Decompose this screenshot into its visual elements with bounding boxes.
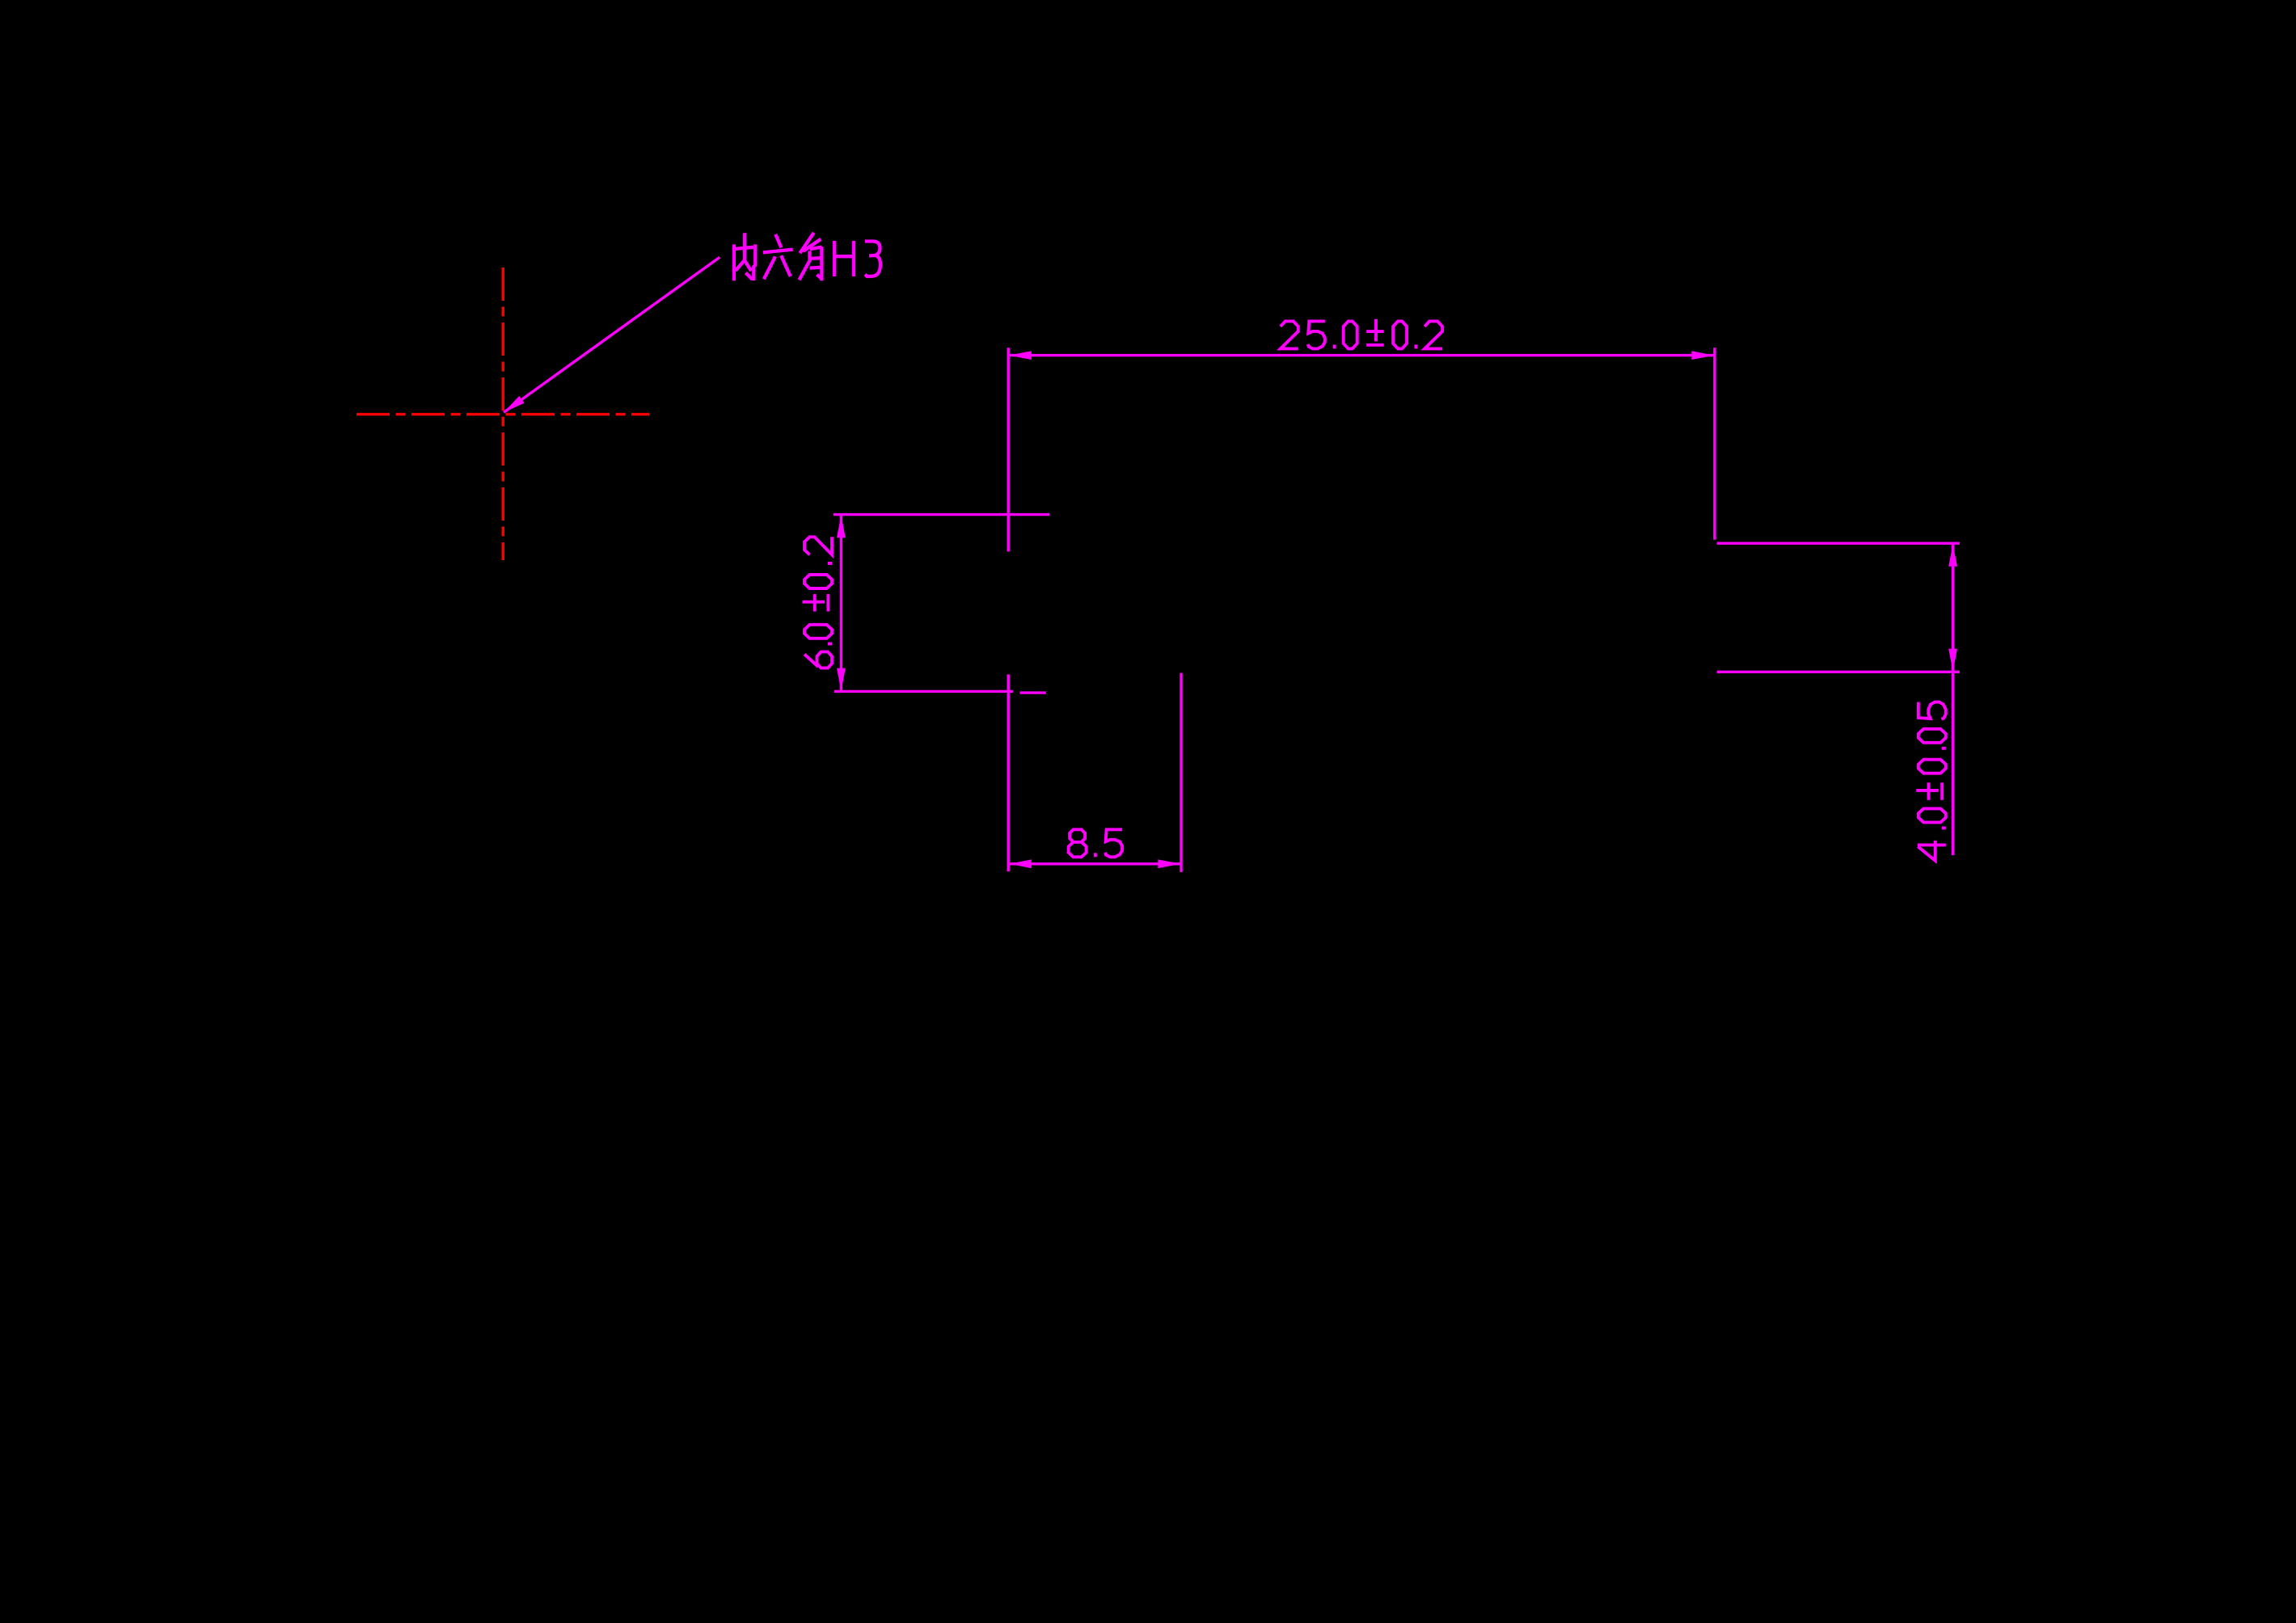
top extension line [834, 513, 1050, 516]
text 25.0±0.2 [1281, 319, 1442, 349]
bottom extension line [1717, 671, 1960, 673]
feature edge segment [1020, 691, 1046, 693]
text 6.0±0.2 (rotated) [803, 537, 833, 668]
dim line [1952, 543, 1954, 855]
arrow right of 25.0 [1691, 351, 1714, 360]
dim line [840, 515, 842, 691]
horizontal centerline [357, 413, 649, 415]
dimension 8.5 [1008, 673, 1181, 872]
arrow bottom of 6.0 [837, 668, 846, 691]
arrow top of 4.0 [1948, 544, 1957, 567]
bottom extension line [834, 690, 1013, 693]
top extension line [1717, 542, 1960, 545]
dimension 4.0±0.05 [1717, 543, 1960, 855]
text 4.0±0.05 (rotated) [1916, 702, 1946, 861]
dimension 25.0±0.2 [1008, 348, 1715, 551]
dim line [1009, 862, 1181, 865]
glyph 内 [734, 233, 755, 280]
left extension line [1007, 348, 1009, 551]
right extension line [1713, 348, 1716, 540]
left extension line [1007, 674, 1009, 871]
right extension line [1180, 673, 1182, 872]
glyph 角 [799, 233, 821, 280]
red centerlines of hex socket hole [357, 268, 649, 560]
arrow right of 8.5 [1158, 859, 1180, 868]
arrow left of 25.0 [1009, 351, 1032, 360]
leader line to hex socket [504, 257, 720, 412]
glyph H [834, 241, 854, 276]
glyph 3 [865, 242, 880, 277]
glyph 六 [763, 234, 793, 280]
dimension 6.0±0.2 [834, 515, 1050, 693]
vertical centerline [502, 268, 504, 560]
text 8.5 [1069, 829, 1123, 857]
dim line [1009, 354, 1714, 356]
arrow top of 6.0 [837, 515, 846, 537]
arrow left of 8.5 [1009, 859, 1032, 868]
leader arrowhead [504, 396, 525, 412]
leader text 内六角H3 [734, 233, 880, 280]
arrow bottom of 4.0 [1948, 649, 1957, 672]
